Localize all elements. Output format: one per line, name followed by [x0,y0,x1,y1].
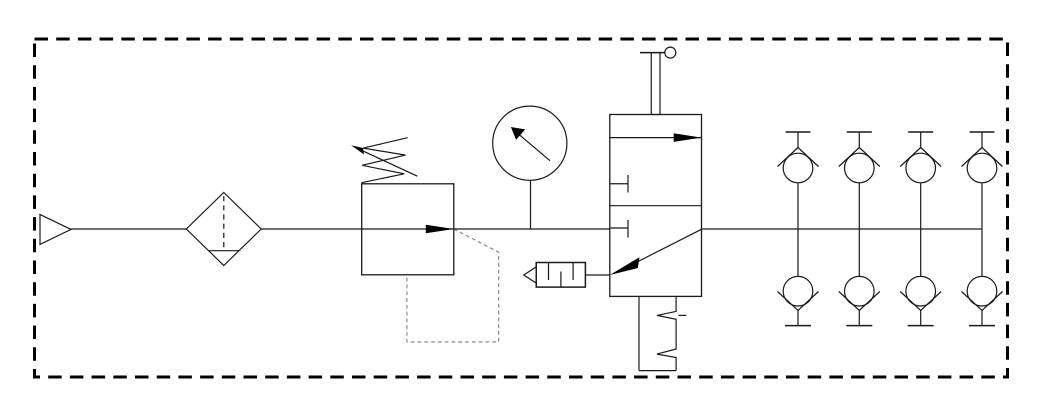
check valve CV6 bottom T-bar [846,325,872,327]
wire: manifold to CV6 [858,229,860,276]
check valve CV1 ball [783,153,813,183]
check valve CV2 seat left [839,148,860,167]
regulator R1 flow path with arrow [362,228,454,230]
wire: CV3 to manifold [920,183,922,229]
valve V1 return spring tick [678,314,686,316]
check valve CV5 stub [797,310,799,325]
wire: regulator to valve [454,228,610,230]
check valve CV7 ball [906,276,936,306]
muffler S1 baffle 3 [572,263,574,281]
check valve CV6 seat right [859,292,880,311]
gauge G1 stem [530,180,532,229]
check valve CV3 stub [920,132,922,148]
check valve CV8 bottom T-bar [969,325,995,327]
check valve CV2 stub [858,132,860,148]
valve V1 lever knob [665,47,676,58]
check valve CV8 seat right [982,292,1003,311]
muffler S1 baffle 2 [560,272,562,288]
check valve CV4 seat right [982,148,1003,167]
regulator R1 pilot dashed line [407,229,499,342]
enclosure dashed border [35,39,1008,377]
check valve CV3 seat left [900,148,921,167]
wire: manifold to CV8 [981,229,983,276]
check valve CV8 seat left [962,292,983,311]
check valve CV1 seat right [798,148,819,167]
regulator R1 adjusting spring [362,138,408,183]
gauge G1 needle [516,132,550,160]
check valve CV8 ball [967,276,997,306]
check valve CV4 seat left [962,148,983,167]
valve V1 position divider [610,205,702,207]
valve V1 return spring box [638,297,640,371]
check valve CV4 stub [981,132,983,148]
wire: source to filter [71,228,186,230]
wire: filter to regulator [261,228,362,230]
valve V1 bottom position blocked port [610,227,628,229]
valve V1 bottom position exhaust path [637,229,702,262]
air supply source triangle [40,214,71,244]
regulator R1 adjustment arrow [356,148,417,177]
muffler S1 body [536,263,585,288]
check valve CV6 stub [858,310,860,325]
muffler S1 exhaust triangle [524,267,537,283]
muffler S1 baffle 1 [548,263,550,281]
valve V1 top position flow arrow [610,137,702,139]
check valve CV1 top T-bar [786,131,811,133]
wire: muffler to valve [585,274,609,276]
filter F1 diamond [186,193,261,266]
filter F1 drain chord [209,250,239,252]
check valve CV1 stub [797,132,799,148]
check valve CV8 stub [981,310,983,325]
check valve CV3 ball [906,153,936,183]
check valve CV7 stub [920,310,922,325]
check valve CV7 bottom T-bar [908,325,934,327]
check valve CV3 top T-bar [908,131,933,133]
check valve CV4 top T-bar [970,131,995,133]
valve V1 top position blocked port [610,183,628,185]
check valve CV1 seat left [778,148,799,167]
filter F1 dashed centerline [223,196,225,251]
check valve CV7 seat right [921,292,942,311]
check valve CV5 seat left [778,292,799,311]
check valve CV5 bottom T-bar [785,325,811,327]
check valve CV3 seat right [921,148,942,167]
wire: CV1 to manifold [797,183,799,229]
check valve CV6 seat left [839,292,860,311]
wire: manifold to CV7 [920,229,922,276]
valve V1 lever stem [651,53,660,115]
check valve CV5 seat right [798,292,819,311]
check valve CV2 ball [845,153,875,183]
wire: CV4 to manifold [981,183,983,229]
check valve CV6 ball [845,276,875,306]
gauge G1 dial [493,106,567,180]
check valve CV5 ball [783,276,813,306]
check valve CV2 seat right [859,148,880,167]
valve V1 body [610,115,702,297]
wire: CV2 to manifold [858,183,860,229]
check valve CV2 top T-bar [847,131,872,133]
check valve CV7 seat left [900,292,921,311]
wire: manifold to CV5 [797,229,799,276]
valve V1 lever bar [640,52,665,54]
wire: valve outlet manifold [702,228,983,230]
regulator R1 body [362,184,454,275]
check valve CV4 ball [967,153,997,183]
